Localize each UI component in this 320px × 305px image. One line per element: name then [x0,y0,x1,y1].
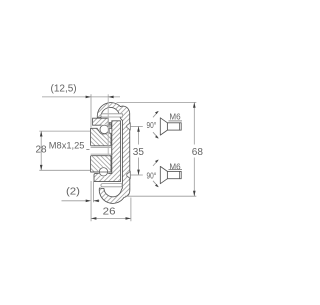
countersink hole notch top in web [127,123,131,130]
extension line bottom of part for 68 [125,195,196,197]
dimension 26 right extension line [130,198,132,222]
dimension (12,5) line [42,96,120,98]
svg-text:35: 35 [133,147,145,158]
slider bottom edge over ball [91,171,112,173]
top ball [100,125,109,134]
svg-text:90°: 90° [147,171,157,181]
dimension (2) line and arrows [62,200,87,202]
dimension (2) extension lines [90,181,92,221]
svg-text:(12,5): (12,5) [51,84,77,95]
countersink hole notch bottom in web [127,172,131,179]
bottom ball [99,168,107,176]
svg-text:M8x1,25: M8x1,25 [49,141,85,151]
svg-text:68: 68 [192,147,204,158]
bottom ball race clearance [98,167,108,177]
bottom slot (white capsule) [101,184,122,187]
dimension (12,5) left extension line [90,94,92,127]
bottom screw M6 [160,166,181,183]
dimension 28 extension lines [39,130,90,132]
top ball race clearance [99,124,109,134]
top slot (white capsule) [101,114,123,117]
center line of ball race (12,5 extension) [107,94,109,156]
svg-text:M6: M6 [169,112,181,122]
M8 threaded hole (white bore with thread lines) [88,146,111,156]
race insert pin right of top ball [109,129,112,134]
dimension 68 line [193,102,195,144]
dimension 35 line [138,126,140,144]
dimension 28 line [40,131,42,170]
top screw M6 [160,118,181,135]
top hook and right web of outer rail [97,103,130,204]
svg-text:28: 28 [36,145,48,156]
inner rail member: middle web + bottom flange [94,121,121,182]
dimension (12,5) arrows [86,96,91,99]
extension line top of part for 68 [117,101,197,103]
svg-text:90°: 90° [147,120,157,130]
dimension 35 extension lines [130,125,143,127]
svg-text:26: 26 [103,206,116,218]
svg-text:(2): (2) [66,186,80,197]
slider block with ball pocket, nose, M8 region [91,123,111,172]
dimension 26 line [91,217,131,219]
inner rail member: top flange [93,118,109,125]
